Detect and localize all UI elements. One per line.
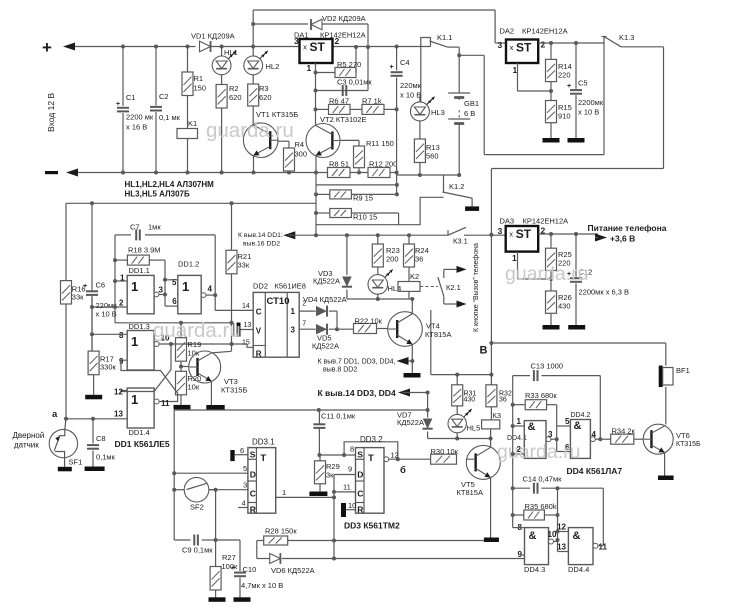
svg-text:R18 3.9М: R18 3.9М [128, 246, 161, 255]
svg-text:13: 13 [244, 322, 252, 329]
svg-text:D: D [250, 470, 256, 480]
svg-text:HL5: HL5 [467, 424, 481, 433]
svg-text:КТ815А: КТ815А [425, 330, 451, 339]
svg-text:guarda.ru: guarda.ru [497, 441, 580, 463]
svg-text:1: 1 [512, 253, 517, 263]
svg-text:DD4.2: DD4.2 [571, 412, 591, 419]
svg-text:guarda.ru: guarda.ru [206, 119, 294, 142]
svg-text:К3.1: К3.1 [453, 237, 468, 246]
svg-text:&: & [573, 530, 581, 542]
svg-text:R8 51: R8 51 [329, 160, 349, 169]
svg-text:б: б [400, 465, 406, 476]
svg-text:R4: R4 [295, 140, 305, 149]
svg-text:1: 1 [131, 279, 138, 294]
svg-text:R27: R27 [222, 553, 236, 562]
svg-text:BF1: BF1 [676, 366, 690, 375]
svg-text:5: 5 [565, 417, 570, 426]
svg-text:8: 8 [350, 445, 354, 454]
svg-text:R9 15: R9 15 [353, 194, 373, 203]
svg-text:0,1мк: 0,1мк [96, 453, 116, 462]
svg-text:5: 5 [243, 464, 247, 473]
svg-text:3: 3 [291, 325, 296, 334]
svg-text:300: 300 [295, 150, 308, 159]
svg-text:S: S [357, 450, 363, 460]
svg-text:DD1.1: DD1.1 [129, 266, 150, 275]
svg-text:1: 1 [291, 307, 296, 316]
svg-text:R35 680k: R35 680k [525, 502, 557, 511]
svg-text:х 10 В: х 10 В [578, 108, 599, 117]
svg-text:0,1 мк: 0,1 мк [159, 113, 181, 122]
svg-text:К2.1: К2.1 [446, 283, 461, 292]
svg-text:100к: 100к [222, 562, 239, 571]
svg-text:х 16 В: х 16 В [126, 123, 147, 132]
svg-text:2: 2 [541, 40, 546, 50]
svg-text:10: 10 [348, 501, 356, 510]
svg-text:СТ10: СТ10 [267, 296, 290, 307]
svg-text:x: x [509, 230, 513, 239]
svg-text:SF2: SF2 [190, 503, 204, 512]
svg-text:+: + [390, 64, 394, 71]
svg-text:+: + [231, 565, 235, 572]
svg-text:10к: 10к [188, 383, 200, 392]
svg-text:12: 12 [391, 451, 399, 460]
svg-text:12: 12 [114, 388, 123, 397]
svg-text:DA3: DA3 [500, 217, 515, 226]
svg-text:DD2: DD2 [253, 282, 268, 291]
svg-text:R7 1k: R7 1k [362, 97, 382, 106]
svg-text:13: 13 [557, 543, 566, 552]
svg-text:VT1 КТ315Б: VT1 КТ315Б [256, 110, 298, 119]
svg-text:14: 14 [242, 303, 250, 310]
svg-text:C: C [256, 308, 262, 317]
svg-text:DD4.4: DD4.4 [568, 565, 589, 574]
svg-text:R22 10к: R22 10к [355, 317, 383, 326]
svg-text:C14 0,47мк: C14 0,47мк [523, 475, 563, 484]
svg-text:C13 1000: C13 1000 [531, 362, 564, 371]
svg-text:1мк: 1мк [148, 223, 161, 232]
svg-text:VT2 КТ3102Е: VT2 КТ3102Е [320, 115, 366, 124]
svg-text:К кнопке “Вызов” телефона: К кнопке “Вызов” телефона [473, 243, 480, 332]
svg-text:х 10 В: х 10 В [400, 91, 421, 100]
svg-text:КР142ЕН12А: КР142ЕН12А [523, 217, 569, 226]
svg-text:K1.3: K1.3 [619, 33, 634, 42]
svg-text:R1: R1 [194, 74, 204, 83]
svg-text:C9 0,1мк: C9 0,1мк [182, 546, 213, 555]
svg-text:D: D [357, 470, 363, 480]
svg-text:620: 620 [259, 93, 272, 102]
svg-text:C8: C8 [96, 434, 106, 443]
svg-text:Вход 12 В: Вход 12 В [46, 93, 56, 132]
svg-text:K1.2: K1.2 [449, 182, 464, 191]
svg-text:VD2 КД209А: VD2 КД209А [322, 14, 366, 23]
svg-text:&: & [528, 421, 536, 433]
svg-text:ST: ST [516, 227, 532, 241]
svg-text:HL1: HL1 [224, 48, 238, 57]
svg-text:В: В [480, 345, 488, 357]
svg-text:C7: C7 [130, 223, 140, 232]
svg-text:C: C [250, 489, 256, 499]
svg-text:9: 9 [348, 465, 352, 474]
svg-text:11: 11 [599, 543, 608, 552]
svg-text:+: + [42, 38, 52, 57]
svg-text:КТ315Б: КТ315Б [676, 441, 701, 448]
svg-text:T: T [368, 453, 374, 464]
svg-text:ST: ST [516, 41, 532, 55]
svg-text:T: T [260, 453, 266, 464]
svg-text:1: 1 [131, 392, 138, 407]
svg-text:guarda.ru: guarda.ru [505, 263, 588, 285]
svg-text:K1.1: K1.1 [437, 33, 452, 42]
svg-text:36: 36 [499, 397, 507, 404]
svg-text:HL3,HL5 АЛ307Б: HL3,HL5 АЛ307Б [125, 190, 191, 199]
svg-text:R3: R3 [259, 84, 269, 93]
svg-text:+: + [116, 101, 120, 108]
svg-text:2200 мк: 2200 мк [126, 113, 154, 122]
svg-text:КР142ЕН12А: КР142ЕН12А [522, 27, 568, 36]
svg-text:1: 1 [307, 63, 312, 73]
svg-text:ST: ST [310, 40, 326, 54]
svg-text:3: 3 [498, 40, 503, 50]
svg-text:3: 3 [159, 286, 164, 295]
svg-text:х 10 В: х 10 В [96, 310, 117, 319]
svg-text:DD3 К561ТМ2: DD3 К561ТМ2 [344, 521, 400, 531]
svg-text:Дверной: Дверной [13, 431, 45, 440]
svg-text:x: x [510, 43, 514, 52]
svg-text:12: 12 [557, 523, 566, 532]
svg-text:R: R [250, 505, 256, 515]
svg-text:C5: C5 [578, 79, 588, 88]
svg-text:DD1.4: DD1.4 [129, 428, 150, 437]
svg-text:7: 7 [302, 321, 306, 328]
svg-text:DD1.2: DD1.2 [178, 260, 199, 269]
svg-text:11: 11 [343, 483, 351, 492]
svg-text:датчик: датчик [14, 441, 39, 450]
svg-text:guarda.ru: guarda.ru [153, 319, 241, 342]
svg-text:33к: 33к [72, 293, 84, 302]
svg-text:SF1: SF1 [69, 458, 83, 467]
svg-text:2: 2 [119, 299, 124, 308]
svg-text:DD1.3: DD1.3 [129, 322, 150, 331]
svg-text:R: R [357, 505, 363, 515]
svg-text:6: 6 [240, 446, 244, 455]
svg-text:VD4 КД522А: VD4 КД522А [303, 295, 347, 304]
svg-text:КТ815А: КТ815А [457, 488, 483, 497]
svg-text:220: 220 [558, 71, 571, 80]
svg-text:К561ИЕ8: К561ИЕ8 [275, 282, 306, 291]
svg-text:15: 15 [242, 340, 250, 347]
svg-text:8: 8 [119, 331, 124, 340]
svg-text:+: + [567, 83, 571, 90]
svg-text:33к: 33к [238, 261, 250, 270]
svg-text:C: C [357, 489, 363, 499]
svg-text:C6: C6 [96, 281, 106, 290]
svg-text:C1: C1 [126, 93, 136, 102]
svg-text:VD1 КД209А: VD1 КД209А [191, 32, 235, 41]
svg-text:K2: K2 [410, 272, 419, 281]
svg-text:910: 910 [558, 112, 571, 121]
svg-text:&: & [574, 420, 582, 432]
svg-text:13: 13 [114, 410, 123, 419]
svg-text:К выв.14 DD3, DD4: К выв.14 DD3, DD4 [318, 388, 396, 398]
svg-text:3: 3 [498, 226, 503, 236]
svg-text:КТ315Б: КТ315Б [221, 386, 247, 395]
svg-text:R34 2к: R34 2к [612, 427, 636, 436]
svg-text:GB1: GB1 [464, 99, 479, 108]
svg-text:C4: C4 [400, 58, 410, 67]
svg-text:620: 620 [229, 93, 242, 102]
svg-text:1: 1 [282, 488, 286, 497]
svg-text:R33 680к: R33 680к [525, 391, 557, 400]
svg-text:C11 0,1мк: C11 0,1мк [321, 412, 356, 421]
svg-text:а: а [52, 409, 58, 420]
svg-text:DA2: DA2 [500, 27, 515, 36]
svg-text:x: x [303, 43, 307, 52]
svg-text:&: & [529, 530, 537, 542]
svg-text:150: 150 [194, 84, 207, 93]
svg-text:R10 15: R10 15 [353, 213, 377, 222]
svg-text:C3 0,01мк: C3 0,01мк [337, 78, 372, 87]
svg-text:+3,6 В: +3,6 В [610, 234, 635, 244]
svg-text:36: 36 [415, 255, 423, 264]
svg-text:выв.16 DD2: выв.16 DD2 [243, 241, 280, 248]
svg-text:220мк: 220мк [400, 81, 422, 90]
svg-text:R5 270: R5 270 [337, 60, 361, 69]
svg-text:330к: 330к [100, 363, 117, 372]
svg-text:R30 10к: R30 10к [431, 447, 459, 456]
svg-text:DD3.1: DD3.1 [252, 438, 275, 447]
svg-text:200: 200 [386, 255, 399, 264]
svg-text:VD6 КД522А: VD6 КД522А [271, 566, 315, 575]
svg-text:2200мк: 2200мк [578, 98, 604, 107]
svg-text:R12 200: R12 200 [369, 160, 397, 169]
svg-text:R28 150к: R28 150к [265, 527, 297, 536]
svg-text:DD4.3: DD4.3 [524, 565, 545, 574]
svg-text:выв.8 DD2: выв.8 DD2 [323, 367, 357, 374]
svg-text:1: 1 [517, 417, 522, 426]
svg-text:DD4 К561ЛА7: DD4 К561ЛА7 [567, 466, 623, 476]
svg-text:11: 11 [161, 399, 170, 408]
svg-text:HL2: HL2 [266, 62, 280, 71]
svg-text:4: 4 [242, 499, 246, 508]
svg-text:430: 430 [558, 302, 571, 311]
svg-text:R2: R2 [229, 84, 239, 93]
svg-text:К выв.14 DD1:: К выв.14 DD1: [238, 232, 283, 239]
svg-text:КД522А: КД522А [313, 277, 340, 286]
svg-text:DD3.2: DD3.2 [360, 435, 383, 444]
svg-text:1: 1 [131, 334, 138, 349]
svg-text:4,7мк x 10 В: 4,7мк x 10 В [241, 581, 283, 590]
svg-text:C10: C10 [243, 565, 257, 574]
svg-text:430: 430 [464, 397, 476, 404]
svg-text:S: S [250, 450, 256, 460]
svg-text:V: V [256, 327, 262, 336]
svg-text:6 В: 6 В [464, 109, 475, 118]
svg-text:DD1 К561ЛЕ5: DD1 К561ЛЕ5 [115, 439, 170, 449]
svg-text:Питание телефона: Питание телефона [588, 223, 667, 233]
svg-text:2200мк х 6,3 В: 2200мк х 6,3 В [579, 288, 630, 297]
svg-text:C2: C2 [159, 92, 169, 101]
svg-text:K1: K1 [188, 119, 197, 128]
svg-text:КД522А: КД522А [397, 418, 424, 427]
svg-text:1: 1 [513, 65, 518, 75]
svg-text:6: 6 [172, 297, 177, 306]
svg-text:R11 150: R11 150 [366, 139, 394, 148]
svg-text:HL3: HL3 [431, 108, 445, 117]
svg-text:560: 560 [426, 152, 439, 161]
svg-text:КД522А: КД522А [312, 342, 339, 351]
svg-text:4: 4 [208, 285, 213, 294]
svg-text:10: 10 [548, 530, 557, 539]
svg-text:3к: 3к [326, 471, 334, 480]
svg-text:3: 3 [243, 481, 247, 490]
svg-text:К3: К3 [493, 411, 502, 420]
svg-text:VT6: VT6 [676, 431, 690, 440]
svg-text:R: R [256, 349, 262, 358]
svg-text:HL1,HL2,HL4 АЛ307НМ: HL1,HL2,HL4 АЛ307НМ [125, 180, 215, 189]
svg-text:1: 1 [182, 279, 189, 294]
svg-text:R6 47: R6 47 [329, 97, 349, 106]
svg-text:К выв.7 DD1, DD3, DD4,: К выв.7 DD1, DD3, DD4, [318, 359, 396, 366]
